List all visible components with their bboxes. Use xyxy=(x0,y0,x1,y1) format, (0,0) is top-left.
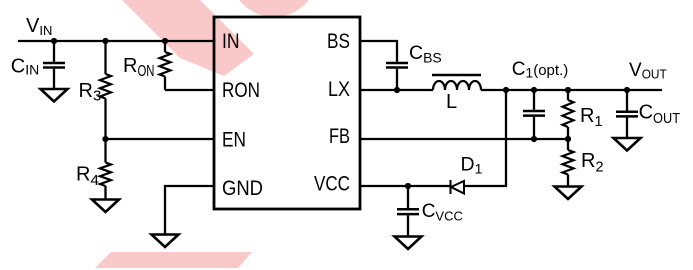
ground below CVCC xyxy=(395,237,422,250)
wire R2 top xyxy=(567,139,569,150)
ground below R2 xyxy=(555,187,582,200)
watermark bottom band xyxy=(95,252,252,268)
capacitor CIN xyxy=(43,63,65,68)
wire R3 bottom xyxy=(104,99,106,140)
svg-text:R4: R4 xyxy=(76,164,99,190)
svg-text:BS: BS xyxy=(327,30,350,53)
wire R4 top xyxy=(104,139,106,163)
watermark circle arc top xyxy=(230,0,318,17)
svg-text:IN: IN xyxy=(222,30,240,53)
capacitor CVCC xyxy=(397,209,419,214)
wire RON resistor bottom xyxy=(164,77,166,91)
svg-text:R1: R1 xyxy=(580,105,603,130)
capacitor C1 xyxy=(523,111,545,116)
svg-text:L: L xyxy=(446,91,457,113)
wire GND pin xyxy=(165,186,214,235)
wire L to VOUT xyxy=(481,89,662,91)
svg-text:D1: D1 xyxy=(461,153,483,176)
inductor L xyxy=(432,75,481,90)
wire BS to CBS xyxy=(360,41,397,62)
capacitor CBS xyxy=(386,63,408,68)
svg-text:VIN: VIN xyxy=(26,15,52,38)
svg-text:GND: GND xyxy=(222,177,263,200)
wire COUT top xyxy=(626,90,628,111)
resistor R2 xyxy=(563,150,574,174)
wire CIN top xyxy=(53,41,55,62)
svg-text:C1(opt.): C1(opt.) xyxy=(512,59,569,81)
resistor R1 xyxy=(563,100,574,127)
svg-text:R3: R3 xyxy=(79,80,102,105)
wire CVCC top xyxy=(407,186,409,208)
wire R2 bottom xyxy=(567,175,569,187)
ground below GND pin xyxy=(152,235,179,248)
wire CIN bottom xyxy=(53,69,55,89)
wire C1 bottom xyxy=(533,117,535,139)
wire D1 to VCC pin xyxy=(360,185,450,187)
wire R1 top xyxy=(567,90,569,100)
svg-text:RON: RON xyxy=(222,79,260,102)
wire COUT bottom xyxy=(626,118,628,138)
svg-text:VCC: VCC xyxy=(314,173,350,196)
svg-text:EN: EN xyxy=(222,129,246,152)
wire C1 top xyxy=(533,90,535,110)
wire RON pin xyxy=(165,89,214,91)
svg-text:RON: RON xyxy=(123,55,154,80)
wire R4 bottom xyxy=(104,186,106,200)
wire R3 top xyxy=(104,41,106,74)
IC U1 body xyxy=(214,17,360,209)
resistor RON xyxy=(160,52,171,76)
wire EN xyxy=(106,138,215,140)
watermark diagonal stripe xyxy=(122,0,254,76)
resistor R3 xyxy=(100,74,111,98)
diode D1 xyxy=(451,180,465,194)
svg-text:CIN: CIN xyxy=(11,55,39,77)
ground below COUT xyxy=(614,138,641,151)
svg-text:VOUT: VOUT xyxy=(629,60,667,82)
wire LX to L xyxy=(360,89,433,91)
svg-text:FB: FB xyxy=(329,125,350,148)
resistor R4 xyxy=(100,163,111,187)
junction node dots xyxy=(51,38,630,189)
wire CBS bottom xyxy=(396,69,398,90)
svg-text:CVCC: CVCC xyxy=(422,201,463,224)
ground below R4 xyxy=(92,200,119,213)
ground below CIN xyxy=(41,89,68,102)
wire VIN rail xyxy=(18,40,214,42)
svg-text:R2: R2 xyxy=(581,150,604,176)
wire R1 bottom xyxy=(567,127,569,139)
wire RON resistor top xyxy=(164,41,166,52)
svg-text:COUT: COUT xyxy=(639,102,680,128)
wire CVCC bottom xyxy=(407,215,409,236)
svg-text:CBS: CBS xyxy=(409,42,442,66)
wire VOUT node to D1 xyxy=(464,90,506,186)
wire FB xyxy=(360,138,568,140)
svg-text:LX: LX xyxy=(328,78,350,101)
capacitor COUT xyxy=(616,112,638,117)
